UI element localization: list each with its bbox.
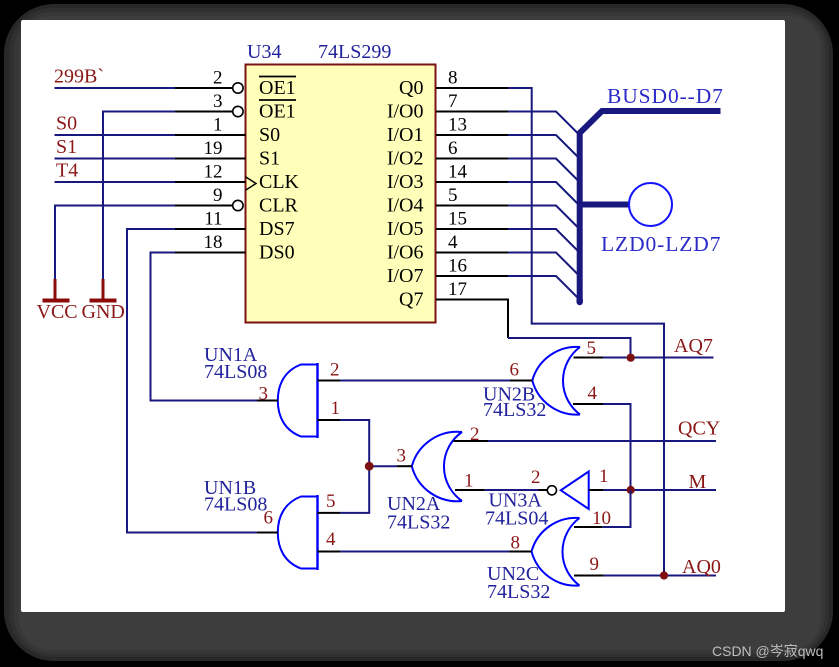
pin name S0 [259,124,280,146]
wire Q0 net: pin 8 down and across to AQ0 column [508,88,664,576]
IC U34 74LS299 body [246,65,436,323]
svg-text:I/O4: I/O4 [387,195,424,217]
UN2B pin 6 output lead [510,380,532,382]
wire UN2C pin9 to AQ0 [604,575,716,577]
pin number 11 [204,209,222,230]
svg-text:10: 10 [592,508,611,529]
svg-text:16: 16 [448,256,467,277]
svg-text:2: 2 [330,360,340,381]
wire UN1A pin2 to UN2B output [340,380,510,382]
svg-text:Q7: Q7 [399,289,423,311]
wire UN3A pin1 to M [604,489,716,491]
wire I/O6 to bus [508,253,578,275]
svg-text:S0: S0 [56,113,77,135]
pin 18 lead [175,252,246,254]
UN2A pin 2 number [470,424,480,445]
inverter UN3A body [547,472,588,510]
svg-text:4: 4 [326,529,336,550]
pin 7 lead [436,111,508,113]
UN2A part label 74LS32 [387,512,450,534]
svg-text:74LS299: 74LS299 [318,41,391,63]
svg-text:299B`: 299B` [54,66,104,88]
wire S1 to pin 19 [55,158,176,160]
UN2A pin 1 lead [455,489,485,491]
svg-text:LZD0-LZD7: LZD0-LZD7 [601,232,721,256]
UN2C pin 8 number [511,533,521,554]
pin name S1 [259,148,280,170]
wire UN2B pin4 down to M junction [603,404,631,490]
wire T4 to pin 12 [55,181,176,183]
UN1B designator label [204,477,256,499]
svg-text:2: 2 [531,467,541,488]
svg-text:3: 3 [213,91,223,112]
pin number 15 [448,209,467,230]
pin 5 lead [436,205,508,207]
UN3A pin 2 output lead [539,489,548,491]
UN2A designator label [387,493,441,515]
UN1B pin 5 lead [318,512,341,514]
pin name I/O4 [387,195,424,217]
wire I/O2 to bus [508,159,578,181]
junction node at M [627,486,635,494]
pin 12 lead [175,181,246,183]
svg-text:13: 13 [448,115,467,136]
pin name Q0 [399,77,423,99]
pin name CLR [259,195,299,217]
UN2B pin 5 number [587,338,597,359]
svg-text:19: 19 [204,138,223,159]
net label AQ0 [682,556,721,578]
UN2B pin 4 lead [573,403,603,405]
UN1A pin 3 output lead [257,400,278,402]
VCC power symbol [37,279,78,323]
and-gate UN1A body [278,363,318,438]
or-gate UN2C body [532,518,580,586]
pin 13 lead [436,134,508,136]
net label LZD0-LZD7 [601,232,721,256]
wire UN2B pin5 to AQ7 [603,357,714,359]
wire UN2A pin1 to UN3A output [485,489,539,491]
svg-text:74LS04: 74LS04 [485,508,548,530]
pin 9 lead with bubble [175,200,243,210]
pin name DS7 [259,218,295,240]
pin number 2 [213,68,223,89]
UN1B pin 4 number [326,529,336,550]
pin 16 lead [436,275,508,277]
junction node at AQ0 [660,571,668,579]
wire I/O1 to bus [508,135,578,157]
svg-text:74LS08: 74LS08 [204,361,267,383]
pin number 16 [448,256,467,277]
svg-text:AQ0: AQ0 [682,556,721,578]
pin 3 lead with bubble [175,106,243,116]
svg-text:15: 15 [448,209,467,230]
svg-text:S0: S0 [259,124,280,146]
LZD port circle [629,183,672,226]
pin name I/O2 [387,148,424,170]
svg-text:I/O5: I/O5 [387,218,424,240]
UN3A part label 74LS04 [485,508,548,530]
UN2C pin 9 lead [574,575,604,577]
svg-text:14: 14 [448,162,468,183]
pin number 19 [204,138,223,159]
svg-text:8: 8 [511,533,521,554]
svg-text:5: 5 [326,491,336,512]
wire I/O5 to bus [508,229,578,251]
UN2B part label 74LS32 [483,399,546,421]
svg-text:AQ7: AQ7 [674,335,713,357]
svg-text:18: 18 [204,232,223,253]
svg-text:74LS32: 74LS32 [483,399,546,421]
pin number 17 [448,279,467,300]
UN1A designator label [204,344,258,366]
wire 299B` to pin 2 [55,87,176,89]
pin name I/O6 [387,242,424,264]
pin number 18 [204,232,223,253]
svg-text:OE1: OE1 [259,77,296,99]
svg-text:5: 5 [448,185,458,206]
pin number 8 [448,68,458,89]
svg-text:I/O2: I/O2 [387,148,424,170]
UN1B part label 74LS08 [204,494,267,516]
svg-text:T4: T4 [56,160,78,182]
svg-text:4: 4 [588,383,598,404]
or-gate UN2B body [532,347,580,415]
wire pin 11 DS7 to UN1B output [127,229,257,533]
UN1B pin 6 output lead [257,532,278,534]
UN3A pin 2 number [531,467,541,488]
svg-text:11: 11 [204,209,222,230]
UN2B pin 6 number [510,360,520,381]
svg-text:I/O0: I/O0 [387,101,424,123]
svg-text:GND: GND [82,301,125,323]
svg-text:QCY: QCY [678,418,720,440]
svg-text:17: 17 [448,279,467,300]
svg-text:DS0: DS0 [259,242,295,264]
pin 19 lead [175,158,246,160]
UN1A pin 1 lead [318,419,341,421]
net label S1 [56,136,77,158]
U34 designator label [247,41,281,63]
svg-text:74LS08: 74LS08 [204,494,267,516]
net label T4 [56,160,78,182]
UN1A pin 2 lead [318,380,341,382]
svg-text:CLR: CLR [259,195,299,217]
UN2A pin 3 output lead [397,465,412,467]
wire I/O3 to bus [508,182,578,204]
svg-text:1: 1 [599,466,609,487]
UN3A designator label [489,490,543,512]
svg-text:8: 8 [448,68,458,89]
net label M [689,471,707,493]
svg-text:12: 12 [204,162,223,183]
pin name I/O0 [387,101,424,123]
UN2B pin 4 number [588,383,598,404]
wire UN2A pin2 to QCY [488,440,716,442]
UN2C pin 8 output lead [510,551,532,553]
svg-text:I/O6: I/O6 [387,242,424,264]
svg-text:I/O1: I/O1 [387,124,424,146]
svg-text:5: 5 [587,338,597,359]
UN2B pin 5 lead [574,357,604,359]
UN3A pin 1 number [599,466,609,487]
svg-text:VCC: VCC [37,301,78,323]
svg-text:6: 6 [510,360,520,381]
pin name I/O5 [387,218,424,240]
UN2A pin 3 number [397,446,407,467]
pin name Q7 [399,289,423,311]
UN2B designator label [483,384,535,406]
svg-text:U34: U34 [247,41,281,63]
svg-text:I/O7: I/O7 [387,265,424,287]
net label AQ7 [674,335,713,357]
UN2C pin 10 lead [574,526,602,528]
svg-text:S1: S1 [259,148,280,170]
svg-text:7: 7 [448,91,458,112]
svg-text:74LS32: 74LS32 [387,512,450,534]
wire UN1A pin1 to junction to UN1B pin5 [340,420,369,513]
pin 4 lead [436,252,508,254]
svg-text:74LS32: 74LS32 [487,581,550,603]
junction node at UN2A output [365,462,374,471]
pin name I/O7 [387,265,424,287]
UN1A part label 74LS08 [204,361,267,383]
pin 8 lead [436,87,508,89]
UN1B pin 4 lead [318,551,341,553]
watermark [712,641,823,661]
pin number 6 [448,138,458,159]
svg-text:1: 1 [331,398,341,419]
svg-text:1: 1 [213,115,223,136]
net label S0 [56,113,77,135]
wire pin 9 to VCC [55,206,175,280]
pin number 9 [213,185,223,206]
UN1A pin 3 number [259,384,269,405]
svg-text:CLK: CLK [259,171,300,193]
UN2A pin 2 lead [454,440,489,442]
wire I/O7 to bus [508,276,578,298]
svg-text:I/O3: I/O3 [387,171,424,193]
svg-text:6: 6 [448,138,458,159]
UN1A pin 1 number [331,398,341,419]
UN1B pin 5 number [326,491,336,512]
bus branch to LZD port [580,202,629,208]
net label BUSD0--D7 [607,84,724,108]
net label QCY [678,418,720,440]
svg-text:4: 4 [448,232,458,253]
UN2C pin 10 number [592,508,611,529]
svg-text:S1: S1 [56,136,77,158]
pin name I/O3 [387,171,424,193]
svg-text:1: 1 [464,471,474,492]
junction node at AQ7 [627,354,635,362]
pin number 13 [448,115,467,136]
pin name CLK [259,171,300,193]
pin number 12 [204,162,223,183]
pin 1 lead [175,134,246,136]
or-gate UN2A body [412,432,462,501]
wire S0 to pin 1 [55,134,176,136]
UN2A pin 1 number [464,471,474,492]
pin name I/O1 [387,124,424,146]
GND power symbol [82,279,125,323]
svg-text:9: 9 [590,554,600,575]
wire UN2C pin10 up to M junction [602,490,630,527]
UN1A pin 2 number [330,360,340,381]
pin 11 lead [175,228,246,230]
wire pin 18 DS0 to UN1A output [151,253,258,401]
svg-text:3: 3 [259,384,269,405]
wire I/O4 to bus [508,206,578,228]
UN1B pin 6 number [264,508,274,529]
pin 14 lead [436,181,508,183]
pin 17 lead (Q7) with corner down [436,300,508,339]
svg-text:Q0: Q0 [399,77,423,99]
pin name OE1 (pin 2) with overline [259,77,296,100]
svg-text:9: 9 [213,185,223,206]
74LS299 part label [318,41,391,63]
UN2C designator label [487,563,539,585]
wire Q7 net to AQ7 junction [508,338,631,358]
pin number 4 [448,232,458,253]
pin 6 lead [436,158,508,160]
pin 2 lead with bubble [175,83,243,93]
pin number 14 [448,162,468,183]
wire I/O0 to bus [508,112,578,134]
clock edge marker on CLK pin [246,177,257,190]
pin number 7 [448,91,458,112]
svg-text:6: 6 [264,508,274,529]
UN3A pin 1 lead [589,489,604,491]
svg-text:2: 2 [213,68,223,89]
net label 299B` [54,66,104,88]
pin number 1 [213,115,223,136]
wire UN1B pin4 to UN2C output [340,551,510,553]
svg-text:DS7: DS7 [259,218,295,240]
pin name OE1 (pin 3) with overline [259,100,296,123]
wire pin 3 to GND [103,112,175,280]
svg-text:M: M [689,471,707,493]
svg-text:2: 2 [470,424,480,445]
pin name DS0 [259,242,295,264]
UN2C part label 74LS32 [487,581,550,603]
UN2C pin 9 number [590,554,600,575]
and-gate UN1B body [278,495,318,570]
pin 15 lead [436,228,508,230]
svg-text:BUSD0--D7: BUSD0--D7 [607,84,724,108]
bus BUSD0--D7 [580,111,721,302]
pin number 5 [448,185,458,206]
svg-text:OE1: OE1 [259,101,296,123]
svg-text:3: 3 [397,446,407,467]
wire junction to UN2A output [369,465,396,467]
pin number 3 [213,91,223,112]
